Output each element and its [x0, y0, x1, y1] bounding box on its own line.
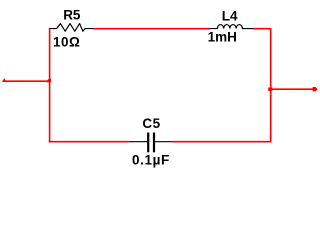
- left port arrow: [2, 78, 6, 82]
- capacitor C5 right plate: [153, 133, 155, 153]
- wire top segment between R5 and L4: [93, 28, 209, 30]
- capacitor C5 left lead: [129, 141, 147, 143]
- svg-text:C5: C5: [142, 116, 160, 131]
- resistor R5: [50, 24, 93, 32]
- svg-text:1mH: 1mH: [208, 30, 237, 45]
- right port arrow: [313, 87, 318, 91]
- wire top-right segment from L4 to right corner: [253, 28, 271, 30]
- inductor L4: [209, 25, 253, 29]
- wire left vertical: [49, 28, 51, 143]
- capacitor C5 left plate: [147, 133, 149, 153]
- capacitor C5 right lead: [155, 141, 172, 143]
- svg-text:10Ω: 10Ω: [53, 34, 80, 49]
- junction left (node A): [47, 79, 51, 83]
- junction right (node B): [268, 88, 272, 91]
- svg-text:R5: R5: [63, 7, 81, 22]
- wire bottom-left segment to C5: [49, 141, 129, 143]
- wire right vertical: [270, 28, 272, 143]
- svg-text:0.1µF: 0.1µF: [132, 152, 170, 167]
- wire right port: [270, 88, 314, 90]
- wire left port: [3, 80, 51, 82]
- wire bottom-right segment from C5: [172, 141, 271, 143]
- svg-text:L4: L4: [222, 8, 238, 23]
